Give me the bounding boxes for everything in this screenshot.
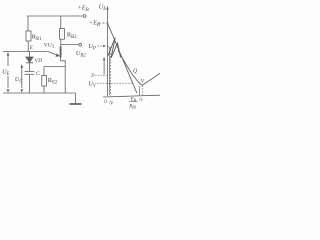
level +EB dashed <box>98 22 107 24</box>
annotation arrow up <box>103 60 105 75</box>
resistor RB1 <box>27 16 29 31</box>
svg-text:VD: VD <box>34 58 42 64</box>
svg-text:F: F <box>90 74 95 79</box>
graph axis UE vertical <box>107 8 109 96</box>
wire node E horizontal <box>3 51 47 53</box>
dashed iV vertical <box>138 86 141 96</box>
wire bottom rail <box>3 92 76 94</box>
svg-text:RE2: RE2 <box>48 77 58 86</box>
svg-text:UE: UE <box>2 69 10 78</box>
wire output UB2 <box>61 44 79 46</box>
graph axis i horizontal <box>103 95 160 97</box>
terminal +EB <box>83 15 86 18</box>
dashed iP vertical <box>109 47 111 96</box>
waveform zigzag <box>108 38 121 59</box>
svg-text:RB1: RB1 <box>32 34 42 43</box>
annotation UC arrow <box>21 66 23 88</box>
svg-text:UB2: UB2 <box>76 50 86 59</box>
curve cutoff branch <box>108 46 110 95</box>
label F dashed <box>90 74 95 79</box>
label +EB <box>78 5 89 14</box>
svg-text:iP: iP <box>109 101 113 106</box>
annotation UE arrow <box>7 54 9 66</box>
label iP <box>109 101 113 106</box>
svg-text:C: C <box>36 71 40 77</box>
curve characteristic <box>118 50 160 85</box>
svg-text:+EB: +EB <box>89 20 100 29</box>
terminal UB2 <box>79 43 82 46</box>
svg-text:+EB: +EB <box>78 5 89 14</box>
origin 0 <box>104 100 107 105</box>
emitter lead with arrow <box>48 51 59 55</box>
svg-text:VU1: VU1 <box>44 43 55 51</box>
point V <box>141 78 145 84</box>
point Q <box>133 69 138 75</box>
load line <box>108 23 137 93</box>
diode VD <box>29 52 31 58</box>
label UV dashed <box>88 80 97 89</box>
svg-text:RB2: RB2 <box>67 32 77 41</box>
svg-text:UV: UV <box>88 80 97 89</box>
label iV <box>139 98 143 103</box>
capacitor C <box>25 70 35 72</box>
wire RE2 branch <box>44 67 65 76</box>
svg-text:0: 0 <box>104 100 107 105</box>
svg-text:iV: iV <box>139 98 143 103</box>
wire B1 lead <box>61 58 66 94</box>
svg-text:UP: UP <box>88 43 96 52</box>
svg-text:E: E <box>29 45 34 51</box>
resistor RB2 <box>60 16 62 29</box>
svg-text:Q: Q <box>133 69 138 75</box>
svg-text:RB1: RB1 <box>128 105 136 110</box>
label UP with arrow <box>88 43 96 52</box>
node E <box>29 45 34 51</box>
label fraction EB/RB1 <box>128 97 136 109</box>
ground <box>75 93 77 104</box>
transistor VU1 (UJT) <box>60 47 62 58</box>
wire top rail <box>27 15 83 17</box>
svg-text:UE: UE <box>99 3 107 12</box>
resistor RE2 <box>42 76 47 87</box>
